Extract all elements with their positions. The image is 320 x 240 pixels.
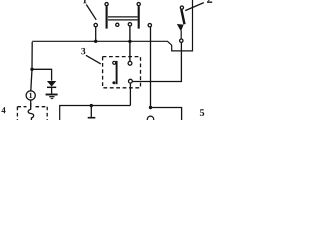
label 1 [83, 0, 87, 3]
component 1 right bar top terminal circle [137, 3, 140, 6]
ground stub below bus [90, 106, 92, 117]
switch 2 blade arrowhead [177, 24, 184, 31]
leader line label 2 [185, 3, 204, 11]
label 3 [81, 48, 85, 54]
junction node left branch [30, 68, 33, 71]
wire diode to ground [51, 88, 53, 94]
wire from switch 2 contact down [133, 43, 182, 82]
component 1 right bar [138, 6, 140, 28]
junction node at bus [94, 40, 97, 43]
leader line to component 1 [86, 5, 96, 20]
relay hook circle top [113, 61, 116, 64]
switch 2 blade [181, 9, 184, 24]
ground symbol [46, 94, 58, 96]
terminal circle 5 [147, 116, 153, 122]
label 5 [200, 109, 204, 116]
ground bar [88, 117, 96, 119]
junction node [128, 40, 131, 43]
switch 2 top pivot circle [180, 6, 183, 9]
box 4 dashed outline [17, 106, 26, 108]
junction node bottom bus [90, 104, 93, 107]
relay breaker bar [116, 61, 118, 84]
left branch vertical wire [31, 42, 32, 91]
relay bottom blob [112, 81, 115, 84]
diode cathode bar [47, 86, 56, 88]
wire from relay lower terminal down [129, 83, 131, 105]
gauge G1 circled 1 [26, 91, 35, 100]
diode D1 triangle [47, 81, 56, 87]
junction node right bottom [149, 106, 152, 109]
wire from terminal d down to bottom junction [150, 27, 152, 108]
relay upper terminal circle [128, 61, 132, 65]
thermal element inside box 4 [28, 103, 34, 120]
wire to diode [32, 69, 52, 80]
label 4 [1, 107, 5, 113]
wire right from junction [151, 108, 182, 121]
switch assembly S1 (component 1) left bar [106, 6, 108, 28]
leader line label 3 [86, 55, 101, 64]
component 1 left bar top terminal circle [105, 3, 108, 6]
bottom left bus wire [60, 106, 131, 121]
label 2 [207, 0, 212, 3]
switch 2 contact terminal circle [180, 39, 183, 42]
wire from terminal c down into relay box [129, 26, 131, 61]
component 1 lower terminal b [116, 23, 119, 26]
main bus wire to switch 2 leg [32, 0, 192, 51]
component 1 lower terminal a [94, 23, 97, 26]
wire from terminal a down to bus [95, 27, 97, 41]
component 1 double contact bars [108, 16, 138, 18]
component 1 lower terminal d [148, 24, 151, 27]
switch 2 contact stub [180, 31, 182, 39]
relay lower terminal circle [129, 79, 133, 83]
wire gauge to box 4 [30, 100, 32, 107]
relay box 3 dashed outline [103, 57, 141, 88]
component 1 lower terminal c [128, 23, 131, 26]
